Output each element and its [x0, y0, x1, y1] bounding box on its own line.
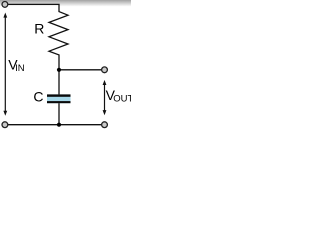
svg-text:C: C [33, 89, 43, 105]
svg-text:OUT: OUT [113, 94, 131, 105]
svg-text:IN: IN [15, 63, 25, 74]
svg-text:R: R [34, 20, 44, 36]
